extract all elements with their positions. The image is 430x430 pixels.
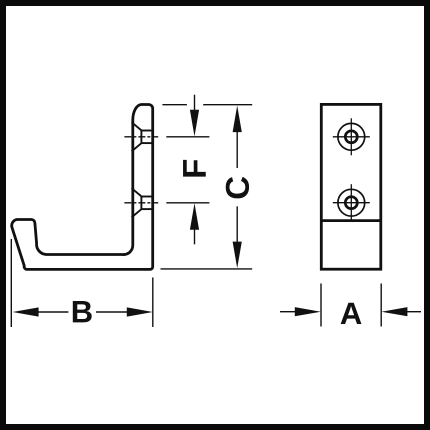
screw hole S1 inner circle — [345, 131, 357, 143]
label F — [183, 160, 206, 177]
screw hole S2 crosshair vertical — [350, 184, 352, 221]
dimension C upper arrowhead (points up to top line) — [233, 106, 242, 133]
B right arrowhead (points right) — [127, 307, 153, 316]
A extension line right — [380, 284, 382, 327]
dimension C line lower segment — [236, 206, 238, 244]
dimension F lower arrowhead (points up to hole2 centerline) — [190, 203, 199, 230]
A left arrow tail — [280, 311, 296, 313]
B left arrowhead (points left) — [13, 307, 39, 316]
extension line hole 1 center — [166, 136, 209, 138]
A right arrow tail — [407, 311, 422, 313]
A extension line left — [320, 284, 322, 327]
countersink hole H1 chamfer top — [132, 122, 142, 130]
extension line top of hook (right segment) — [203, 104, 252, 106]
dimension F lower arrow tail — [194, 229, 196, 244]
extension line bottom of hook — [161, 268, 253, 270]
front view rectangle — [321, 104, 381, 269]
B extension line right — [152, 278, 154, 328]
countersink hole H2 bore top — [141, 196, 152, 198]
centerline hole 2 — [124, 202, 158, 204]
screw hole S2 inner circle — [345, 197, 357, 209]
label A — [341, 303, 362, 324]
countersink hole H2 chamfer top — [132, 188, 142, 196]
label C — [226, 177, 249, 199]
hook side-view outline — [12, 104, 153, 269]
screw hole S2 crosshair horizontal — [333, 202, 370, 204]
B extension line left — [10, 239, 12, 327]
screw hole S1 crosshair vertical — [350, 118, 352, 155]
dimension F upper arrowhead (points down to hole1 centerline) — [190, 110, 199, 137]
extension line hole 2 center — [166, 202, 209, 204]
dimension C lower arrowhead (points down to bottom line) — [233, 242, 242, 269]
centerline hole 1 — [124, 136, 158, 138]
countersink hole H1 bore top — [141, 130, 152, 132]
dimension C line upper segment — [236, 130, 238, 168]
A left arrowhead (points right) — [295, 307, 321, 316]
countersink hole H2 transition edge — [140, 196, 142, 210]
label B — [73, 301, 92, 322]
countersink hole H1 chamfer bottom — [132, 143, 142, 151]
dimension F upper arrow tail — [194, 95, 196, 111]
screw hole S1 outer circle — [338, 123, 365, 150]
countersink hole H1 transition edge — [140, 130, 142, 144]
extension line top of hook (left segment) — [162, 104, 187, 106]
countersink hole H1 bore bottom — [141, 142, 152, 144]
countersink hole H2 bore bottom — [141, 208, 152, 210]
countersink hole H2 chamfer bottom — [132, 209, 142, 217]
A right arrowhead (points left) — [381, 307, 407, 316]
front view divider line — [321, 219, 381, 222]
screw hole S2 outer circle — [338, 189, 365, 216]
screw hole S1 crosshair horizontal — [333, 136, 370, 138]
B dimension line left segment — [30, 311, 68, 313]
B dimension line right segment — [96, 311, 135, 313]
